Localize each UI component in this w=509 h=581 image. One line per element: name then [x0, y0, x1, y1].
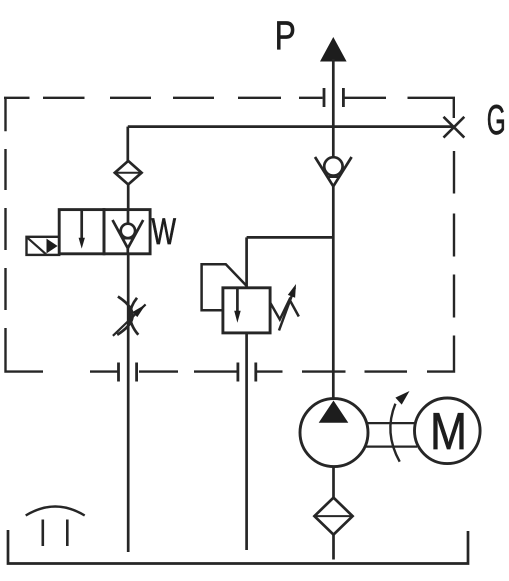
- tank outline: [8, 530, 468, 564]
- valve W left position: flow arrow down: [80, 211, 83, 240]
- wire: suction pipe into tank: [332, 535, 335, 560]
- manifold boundary top edge (dashed): [4, 98, 454, 118]
- wire: filter to valve W: [127, 185, 130, 210]
- manifold boundary bottom edge (dashed): [90, 336, 454, 372]
- motor circle: [415, 398, 481, 464]
- pump flow triangle (filled, pointing up): [319, 401, 349, 423]
- manifold boundary right edge (dashed): [453, 151, 455, 318]
- boundary crossing ticks at relief drain line: [238, 363, 256, 382]
- valve W right position: ball check: [113, 210, 144, 254]
- check valve on main line (ball in V seat): [315, 157, 352, 186]
- svg-text:W: W: [152, 211, 177, 252]
- wire: left branch down from G line to filter: [126, 127, 129, 161]
- svg-text:M: M: [430, 402, 467, 460]
- boundary crossing ticks at left tank line: [119, 363, 137, 382]
- rotation direction arrow: [390, 391, 409, 462]
- pump circle: [300, 399, 368, 467]
- solenoid actuator of valve W: [27, 237, 60, 255]
- port P arrow (filled up triangle): [320, 37, 347, 62]
- breather (arc): [26, 507, 85, 516]
- suction filter (diamond): [314, 498, 352, 535]
- wire: G gauge line: [128, 125, 454, 128]
- svg-text:P: P: [275, 14, 296, 58]
- wire: main pressure line lower (check valve to pump): [332, 186, 335, 398]
- inline filter (diamond) on left branch: [115, 161, 142, 185]
- wire: valve W down to tank (through throttle): [127, 254, 130, 552]
- wire: pump suction upper: [332, 467, 335, 498]
- breather ticks: [43, 520, 68, 547]
- node G plug (X symbol): [444, 117, 465, 138]
- boundary crossing ticks at P line: [324, 88, 343, 107]
- relief valve internal flow arrow: [236, 289, 239, 313]
- svg-text:G: G: [487, 96, 506, 143]
- shaft between pump and motor: [366, 423, 417, 447]
- relief valve spring (adjustable): [270, 284, 299, 331]
- wire: main pressure line upper (P to check valve): [332, 59, 335, 157]
- wire: relief valve drain to tank: [245, 333, 248, 550]
- relief valve body: [223, 288, 270, 333]
- relief valve pilot line loop: [202, 264, 247, 310]
- manifold boundary left edge (dashed): [6, 98, 44, 372]
- valve W body (2-position, 2-way): [59, 210, 104, 254]
- throttle (adjustable restrictor) on left tank line: [113, 297, 146, 336]
- wire: relief branch from main line: [247, 236, 334, 239]
